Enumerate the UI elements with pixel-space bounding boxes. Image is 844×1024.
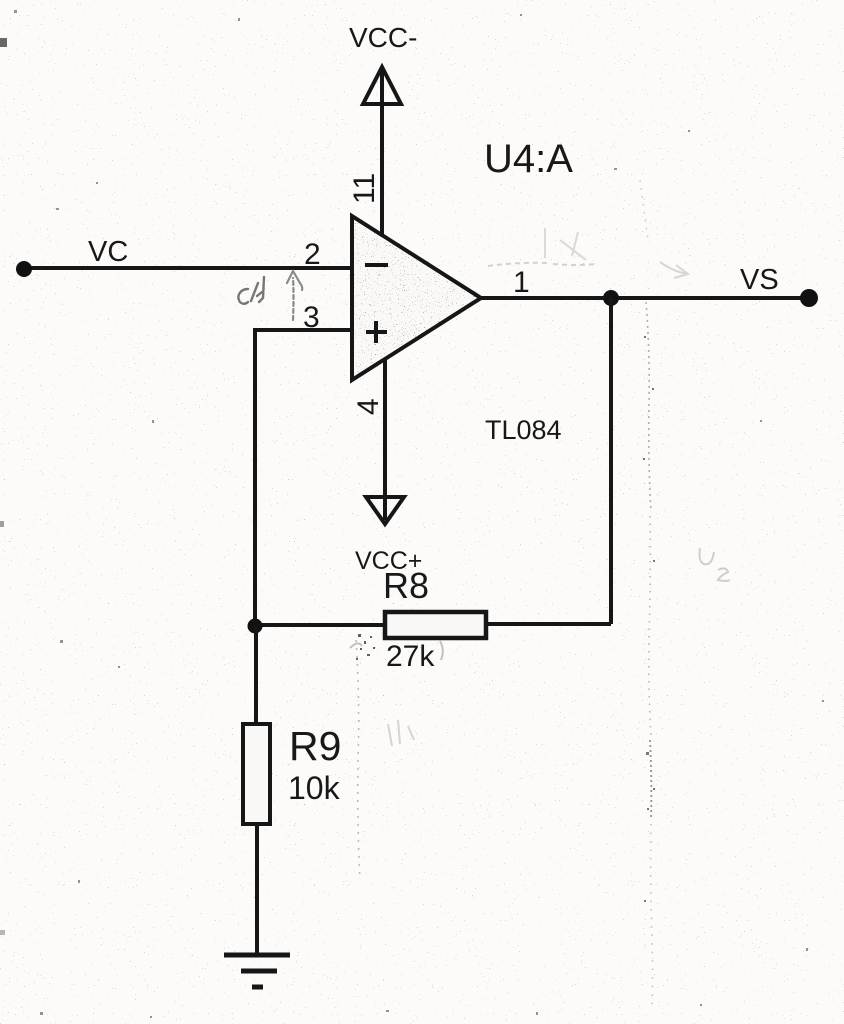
svg-text:U4:A: U4:A bbox=[484, 137, 573, 181]
svg-text:VS: VS bbox=[740, 264, 779, 296]
wire: pin 11 to VCC- bbox=[380, 70, 384, 234]
node VC terminal dot bbox=[16, 261, 32, 277]
scan artifact: speckle cluster left of R8 bbox=[356, 634, 375, 660]
wire: pin 3 horizontal bbox=[255, 328, 352, 332]
svg-text:VCC-: VCC- bbox=[349, 22, 417, 53]
wire: R9 to ground bbox=[255, 824, 259, 955]
op-amp minus input symbol bbox=[365, 263, 388, 267]
scan artifact: faint Uz pencil marks right side bbox=[700, 548, 731, 581]
op-amp plus input symbol bbox=[366, 330, 387, 334]
scan artifact: left edge specks bbox=[0, 38, 7, 47]
wire: pin 3 vertical down to node bbox=[253, 328, 257, 627]
svg-text:10k: 10k bbox=[288, 770, 341, 806]
node VS terminal dot bbox=[800, 289, 818, 307]
op-amp U1 triangle bbox=[352, 216, 481, 380]
power VCC- arrow symbol bbox=[363, 67, 401, 104]
scan artifact: dotted vertical streak right of feedback wire bbox=[646, 302, 651, 512]
svg-text:VC: VC bbox=[88, 236, 128, 268]
wire: output pin 1 to VS bbox=[481, 296, 810, 300]
ground bbox=[224, 953, 290, 958]
svg-text:R9: R9 bbox=[289, 723, 341, 769]
scan artifact: faint dashes above output wire bbox=[488, 263, 597, 266]
resistor R8 body bbox=[385, 612, 486, 638]
wire: node down to R9 bbox=[254, 625, 258, 724]
scan artifact: faint ticks below pin4 area bbox=[388, 720, 414, 746]
svg-text:R8: R8 bbox=[383, 565, 429, 606]
svg-text:TL084: TL084 bbox=[485, 415, 562, 445]
wire: VC input to pin 2 bbox=[24, 266, 352, 270]
svg-text:1: 1 bbox=[513, 266, 530, 299]
svg-text:27k: 27k bbox=[386, 640, 435, 673]
pencil mark: handwritten sideways 2 near pin 2 bbox=[238, 277, 264, 304]
svg-text:2: 2 bbox=[304, 238, 321, 271]
power VCC+ arrow symbol (down) bbox=[366, 497, 404, 524]
wire: feedback horizontal to R8 bbox=[486, 622, 611, 626]
resistor R9 body bbox=[243, 724, 270, 824]
svg-text:3: 3 bbox=[303, 301, 320, 334]
node output junction dot bbox=[603, 290, 619, 306]
wire: feedback vertical from output node bbox=[609, 298, 613, 624]
pencil mark: sketchy arrow near pin 3 bbox=[287, 271, 302, 320]
scan artifact: faint arrow near output node bbox=[660, 262, 688, 278]
wire: pin 4 to VCC+ bbox=[383, 358, 387, 520]
node feedback junction dot bbox=[248, 619, 263, 634]
wire: R8 left to node bbox=[253, 623, 385, 627]
scan artifact: dotted streak below R8 bbox=[356, 640, 360, 880]
svg-text:11: 11 bbox=[348, 173, 381, 204]
svg-text:4: 4 bbox=[352, 398, 385, 415]
